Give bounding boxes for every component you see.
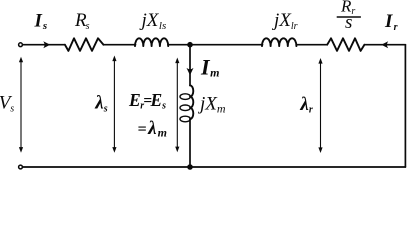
svg-text:=λm: =λm bbox=[138, 118, 167, 140]
fraction bar of Rr/s bbox=[337, 16, 361, 18]
inductor jXm vertical (right bumps) bbox=[190, 85, 193, 119]
svg-text:Ir: Ir bbox=[384, 11, 398, 33]
svg-text:Im: Im bbox=[200, 55, 219, 80]
terminal circle bottom left bbox=[19, 165, 23, 169]
svg-text:Er=Es: Er=Es bbox=[128, 90, 166, 111]
wire between Rs and jXls bbox=[104, 44, 136, 46]
arrow Is current direction bbox=[43, 41, 50, 48]
svg-text:Is: Is bbox=[34, 10, 48, 32]
dimension arrow lambda_s bbox=[113, 59, 115, 149]
dimension arrow Er=Es bbox=[176, 61, 178, 148]
inductor jXls bbox=[135, 38, 168, 46]
inductor jXm left curl 2 bbox=[180, 105, 190, 111]
inductor jXm left curl 1 bbox=[180, 94, 190, 100]
terminal circle top left bbox=[19, 43, 23, 47]
svg-text:λs: λs bbox=[94, 93, 107, 115]
svg-text:Vs: Vs bbox=[0, 93, 14, 115]
wire between jXls and jXlr (through node) bbox=[168, 44, 263, 46]
svg-text:jXm: jXm bbox=[197, 94, 226, 116]
svg-text:Rs: Rs bbox=[74, 10, 90, 32]
svg-text:jXlr: jXlr bbox=[271, 10, 298, 32]
wire Rr/s to right corner bbox=[364, 44, 405, 46]
svg-text:λr: λr bbox=[299, 94, 312, 116]
wire between jXlr and Rr/s bbox=[297, 44, 327, 46]
resistor Rr/s zigzag bbox=[327, 38, 364, 51]
arrow Im current direction bbox=[187, 68, 194, 75]
wire right vertical bbox=[404, 45, 406, 167]
resistor Rs zigzag bbox=[65, 38, 104, 51]
svg-text:jXls: jXls bbox=[139, 10, 167, 32]
inductor jXlr bbox=[262, 38, 296, 46]
wire shunt branch upper bbox=[189, 45, 191, 86]
wire bottom bbox=[23, 166, 406, 168]
dimension arrow lambda_r bbox=[320, 62, 322, 149]
node dot top (junction of shunt branch) bbox=[187, 42, 193, 48]
wire shunt branch lower bbox=[189, 119, 191, 167]
inductor jXm left curl 3 bbox=[180, 116, 190, 122]
wire top left segment bbox=[23, 44, 65, 46]
dimension arrow Vs bbox=[20, 61, 22, 150]
svg-text:s: s bbox=[345, 12, 352, 33]
node dot bottom (junction of shunt branch) bbox=[187, 164, 193, 170]
arrow Ir current direction bbox=[381, 41, 388, 48]
